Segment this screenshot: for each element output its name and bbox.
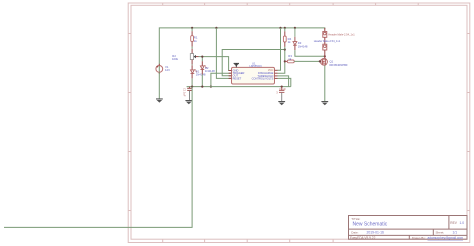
junction top rail at R1: [191, 27, 193, 29]
junction top rail at D3: [294, 27, 296, 29]
header P1: [323, 28, 327, 37]
label D1 1N4148: [196, 70, 206, 77]
junction top rail at R4: [284, 27, 286, 29]
sheet frame zone ticks top: [163, 3, 419, 5]
capacitor C3: [279, 87, 284, 101]
label R1 1k: [194, 36, 198, 43]
svg-text:1.0: 1.0: [460, 221, 465, 225]
ground under C1: [185, 100, 192, 104]
label D2 1N4148: [205, 66, 215, 73]
diode D1: [191, 69, 198, 73]
wire mosfet to ground: [324, 65, 326, 101]
IC U1 LM555CN body: [232, 67, 275, 84]
ground under V1: [156, 98, 163, 102]
wire D2 bottom to rail: [201, 70, 203, 75]
junction discharge node: [284, 48, 286, 50]
svg-text:1N4148: 1N4148: [298, 44, 308, 48]
IC pin names right: [252, 68, 274, 80]
svg-text:1/1: 1/1: [453, 231, 458, 235]
junction bottom rail at C3 tap: [281, 86, 283, 88]
IC title U1 LM555CN: [250, 61, 262, 68]
svg-text:0.1uF: 0.1uF: [279, 87, 286, 91]
junction bottom rail at D1: [191, 86, 193, 88]
sheet frame zone ticks bottom: [163, 239, 333, 242]
IC pins left: [229, 71, 232, 79]
svg-text:Sheet:: Sheet:: [436, 230, 445, 234]
title block texts: [350, 217, 458, 240]
svg-text:100k: 100k: [172, 57, 179, 61]
wire P1 to P2: [324, 37, 326, 44]
header P2: [323, 44, 327, 50]
sheet frame zone ticks left: [128, 34, 131, 211]
junction trigger at rail: [210, 86, 212, 88]
diode D3: [293, 28, 297, 45]
mosfet Q1: [321, 58, 328, 65]
label V1 12V: [165, 65, 170, 72]
wire P2 to mosfet: [324, 50, 326, 58]
wire threshold to bottom rail: [278, 76, 289, 87]
svg-text:12V: 12V: [165, 68, 170, 72]
resistor R3: [285, 60, 320, 63]
svg-text:Header Male-2.54_1x1: Header Male-2.54_1x1: [328, 32, 355, 36]
label C1 rotated: [183, 88, 187, 97]
junction bottom rail at D2: [201, 86, 203, 88]
wire D2 top to wiper wire: [201, 57, 203, 62]
voltage source V1: [156, 64, 163, 74]
svg-text:1N4148: 1N4148: [196, 73, 206, 77]
wire reset column from vcc rail: [216, 28, 231, 79]
wire D3 to mosfet column: [294, 45, 296, 50]
junction top rail at VCC riser: [279, 27, 281, 29]
label R2 100k: [172, 54, 179, 61]
junction top rail at reset column: [215, 27, 217, 29]
wire pot wiper to GND pin column: [199, 57, 232, 71]
svg-text:TITLE:: TITLE:: [351, 217, 360, 221]
svg-text:Date:: Date:: [351, 230, 358, 234]
svg-text:Drawn By:: Drawn By:: [412, 236, 426, 240]
svg-text:C1 1uF: C1 1uF: [183, 88, 187, 97]
junction mosfet column: [324, 55, 326, 57]
sheet frame zone ticks right: [467, 34, 470, 211]
junction wiper wire at D2: [201, 56, 203, 58]
svg-text:LM555CN: LM555CN: [250, 64, 262, 68]
wire VCC top rail: [159, 28, 324, 66]
svg-text:EasyEDA V5.9.22: EasyEDA V5.9.22: [350, 236, 376, 240]
junction R3 tap: [284, 60, 286, 62]
wire D1 to bottom rail: [191, 74, 193, 79]
svg-text:CONTROL/VOLTS: CONTROL/VOLTS: [252, 76, 274, 80]
junction gate: [319, 60, 321, 62]
label R3 1k: [288, 54, 292, 61]
svg-text:adamurphey@gmail.com: adamurphey@gmail.com: [428, 236, 464, 240]
label Q1 IRF9540NPBF: [330, 60, 348, 67]
wire out loop to discharge node: [222, 50, 285, 76]
wire bottom timing rail: [187, 86, 291, 88]
ground under mosfet: [321, 101, 328, 105]
wire V1 to ground: [158, 72, 160, 98]
wire control to bottom rail: [278, 78, 291, 86]
sheet frame outer border: [128, 3, 470, 243]
capacitor C1: [187, 87, 192, 101]
svg-text:REV: REV: [450, 221, 457, 225]
label D3 1N4148: [298, 41, 308, 48]
svg-text:RESET: RESET: [233, 76, 242, 80]
svg-text:2019-01-16: 2019-01-16: [367, 231, 384, 235]
svg-text:IRF9540NPBF: IRF9540NPBF: [330, 63, 348, 67]
ground under C3: [278, 101, 285, 105]
wire VCC pin riser: [278, 28, 281, 70]
wire trigger rail riser: [211, 73, 232, 86]
potentiometer R2: [190, 54, 198, 60]
resistor R4: [283, 28, 286, 50]
svg-text:New Schematic: New Schematic: [353, 221, 388, 227]
resistor R1: [191, 28, 194, 54]
wire pot to D1: [191, 60, 193, 65]
IC pin names left: [233, 68, 245, 80]
diode D2: [200, 65, 207, 69]
ground arrow above IC: [234, 63, 239, 68]
svg-text:Header Male-2.54_1x1: Header Male-2.54_1x1: [314, 39, 341, 43]
label R4 1k: [288, 37, 292, 44]
svg-text:1N4148: 1N4148: [205, 69, 215, 73]
wire long net to page edge: [4, 87, 192, 228]
title block grid: [349, 216, 468, 240]
IC pins right: [275, 70, 278, 78]
wire discharge riser: [278, 50, 285, 74]
label C3 0.1uF: [276, 87, 286, 95]
